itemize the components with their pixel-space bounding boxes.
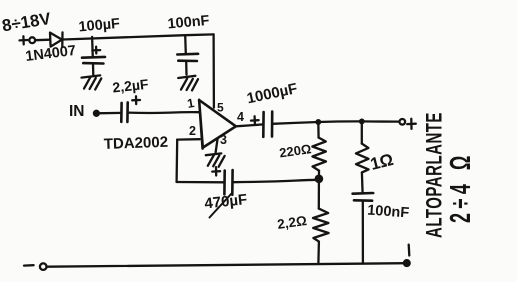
wire R1 to node A bbox=[318, 171, 320, 177]
bottom minus sign right bbox=[408, 245, 411, 256]
resistor R3 1 ohm bbox=[356, 144, 369, 173]
ground under C2 bbox=[178, 76, 198, 91]
label 470uF bbox=[204, 191, 248, 212]
svg-text:8÷18V: 8÷18V bbox=[1, 9, 53, 36]
label 100nF bottom bbox=[367, 203, 410, 222]
svg-text:1N4007: 1N4007 bbox=[25, 43, 77, 65]
wire C3 to pin1 bbox=[128, 111, 199, 114]
wire rail to pin5 bbox=[212, 34, 215, 107]
label 470uF mu tail slash bbox=[210, 194, 232, 218]
capacitor C1 100uF plates bbox=[82, 57, 105, 64]
wire feedback vertical bbox=[175, 140, 178, 182]
wire top supply rail bbox=[63, 34, 214, 39]
label 2÷4 ohm bbox=[445, 151, 477, 223]
wire IN to C3 bbox=[96, 112, 121, 115]
resistor R1 220 ohm bbox=[312, 138, 326, 171]
svg-text:3: 3 bbox=[220, 133, 227, 147]
pin label 3 bbox=[220, 133, 227, 147]
pin label 1 bbox=[186, 96, 195, 111]
ground under C1 bbox=[82, 75, 102, 89]
node input dot bbox=[94, 111, 99, 116]
node A junction dot bbox=[316, 176, 322, 182]
node output branch 1 bbox=[317, 120, 321, 124]
wire rail tap to C2 bbox=[184, 35, 187, 54]
bottom right terminal dot bbox=[404, 260, 410, 266]
bottom minus sign left bbox=[24, 264, 34, 267]
svg-text:1: 1 bbox=[186, 96, 195, 111]
wire feedback to C4 bbox=[177, 181, 224, 184]
capacitor C4 470uF plus bbox=[212, 167, 220, 175]
capacitor C3 2,2uF plus bbox=[132, 96, 140, 104]
wire C2 to ground bbox=[185, 61, 188, 74]
svg-text:ALTOPARLANTE: ALTOPARLANTE bbox=[422, 112, 446, 238]
bottom left terminal circle bbox=[40, 263, 47, 270]
label 1000uF bbox=[245, 80, 299, 107]
wire C1 to ground bbox=[92, 64, 95, 76]
output terminal circle bbox=[400, 119, 406, 125]
label IN bbox=[69, 103, 85, 120]
input terminal circle bbox=[29, 37, 35, 43]
wire terminal to diode bbox=[35, 39, 50, 42]
capacitor C5 1000uF plates bbox=[263, 112, 272, 137]
wire pin3 stub bbox=[216, 139, 218, 153]
pin label 5 bbox=[217, 101, 224, 115]
label 1N4007 bbox=[25, 43, 77, 65]
svg-text:1000µF: 1000µF bbox=[245, 80, 299, 107]
diode D1 1N4007 bbox=[50, 32, 63, 47]
capacitor C5 1000uF plus bbox=[251, 116, 259, 124]
label 100nF top bbox=[167, 13, 210, 33]
label ALTOPARLANTE bbox=[422, 112, 446, 238]
wire C5 to output terminal bbox=[272, 121, 399, 123]
output plus sign bbox=[407, 119, 416, 129]
capacitor C4 470uF plates bbox=[224, 170, 232, 195]
svg-text:220Ω: 220Ω bbox=[278, 141, 312, 160]
svg-text:2: 2 bbox=[189, 124, 196, 138]
label TDA2002 bbox=[104, 134, 169, 153]
svg-text:100nF: 100nF bbox=[167, 13, 210, 33]
svg-text:IN: IN bbox=[69, 103, 85, 120]
wire C4 to junction bbox=[233, 180, 319, 182]
label 8÷18V bbox=[1, 9, 53, 36]
pin label 4 bbox=[237, 110, 244, 124]
label 2,2 ohm bbox=[276, 213, 308, 232]
capacitor C2 100nF plates bbox=[177, 54, 198, 61]
svg-text:100µF: 100µF bbox=[78, 16, 121, 36]
svg-text:4: 4 bbox=[237, 110, 244, 124]
wire bottom rail bbox=[47, 263, 407, 267]
wire pin4 output bbox=[236, 124, 263, 126]
input plus sign bbox=[20, 36, 28, 44]
svg-text:2÷4 Ω: 2÷4 Ω bbox=[445, 151, 477, 223]
capacitor C1 100uF plus bbox=[92, 47, 100, 54]
capacitor C3 2,2uF plates bbox=[121, 102, 127, 122]
svg-text:100nF: 100nF bbox=[367, 203, 410, 222]
svg-text:1Ω: 1Ω bbox=[368, 150, 395, 174]
label 1 ohm bbox=[368, 150, 395, 174]
svg-text:470µF: 470µF bbox=[204, 191, 248, 212]
ground under pin3 bbox=[206, 153, 225, 166]
op-amp U1 TDA2002 triangle bbox=[199, 100, 236, 149]
svg-text:5: 5 bbox=[217, 101, 224, 115]
wire R2 to bottom rail bbox=[317, 242, 320, 264]
label 2,2uF bbox=[112, 76, 150, 96]
capacitor C6 100nF plates bbox=[353, 193, 374, 201]
wire C6 to bottom rail bbox=[362, 201, 364, 263]
svg-text:TDA2002: TDA2002 bbox=[104, 134, 169, 153]
label 100uF bbox=[78, 16, 121, 36]
wire output to R3 bbox=[361, 121, 363, 143]
wire pin2 to feedback bbox=[177, 138, 200, 141]
label 220 ohm bbox=[278, 141, 312, 160]
pin label 2 bbox=[189, 124, 196, 138]
svg-text:2,2µF: 2,2µF bbox=[112, 76, 150, 96]
wire output to R1 bbox=[317, 122, 320, 138]
resistor R2 2,2 ohm bbox=[313, 209, 329, 242]
wire rail tap to C1 bbox=[91, 37, 94, 57]
wire R3 to C6 bbox=[361, 172, 364, 193]
node output branch 2 bbox=[360, 120, 364, 124]
svg-text:2,2Ω: 2,2Ω bbox=[276, 213, 308, 232]
wire node A to R2 bbox=[318, 183, 320, 209]
